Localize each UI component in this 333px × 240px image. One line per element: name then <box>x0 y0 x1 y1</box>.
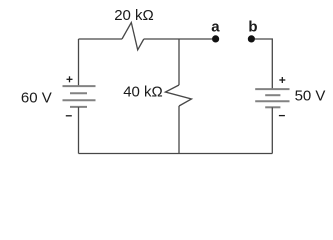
resistor R 20k (break-style zigzag in top wire) <box>122 23 144 50</box>
battery V2 minus sign <box>279 115 285 117</box>
wire: top-left horizontal from left branch to R1 <box>79 38 123 40</box>
battery V1 60V plates <box>63 86 96 107</box>
wire: from terminal b right then down to 50V battery <box>255 39 272 89</box>
resistor R 40k (break-style zigzag in middle branch) <box>165 85 191 106</box>
wire: right branch lower vertical <box>271 107 273 153</box>
battery V1 plus sign <box>67 76 73 82</box>
battery V2 50V plates <box>255 89 289 107</box>
wire: left branch upper vertical <box>78 39 80 86</box>
wire: bottom horizontal <box>79 153 273 155</box>
wire: left branch lower vertical <box>78 107 80 154</box>
wire: middle branch lower vertical <box>178 106 180 154</box>
node junction: top of 40k branch <box>178 39 180 85</box>
battery V1 minus sign <box>66 115 72 117</box>
terminal a (filled dot) <box>212 35 219 42</box>
svg-text:40 kΩ: 40 kΩ <box>123 84 163 101</box>
svg-text:20 kΩ: 20 kΩ <box>114 7 154 24</box>
svg-text:60 V: 60 V <box>21 89 52 106</box>
wire: top horizontal from R1 to terminal a <box>144 38 212 40</box>
battery V2 plus sign <box>279 77 285 83</box>
terminal b (filled dot) <box>248 35 255 42</box>
svg-text:b: b <box>248 19 257 36</box>
svg-text:50 V: 50 V <box>295 88 326 105</box>
svg-text:a: a <box>211 19 220 36</box>
